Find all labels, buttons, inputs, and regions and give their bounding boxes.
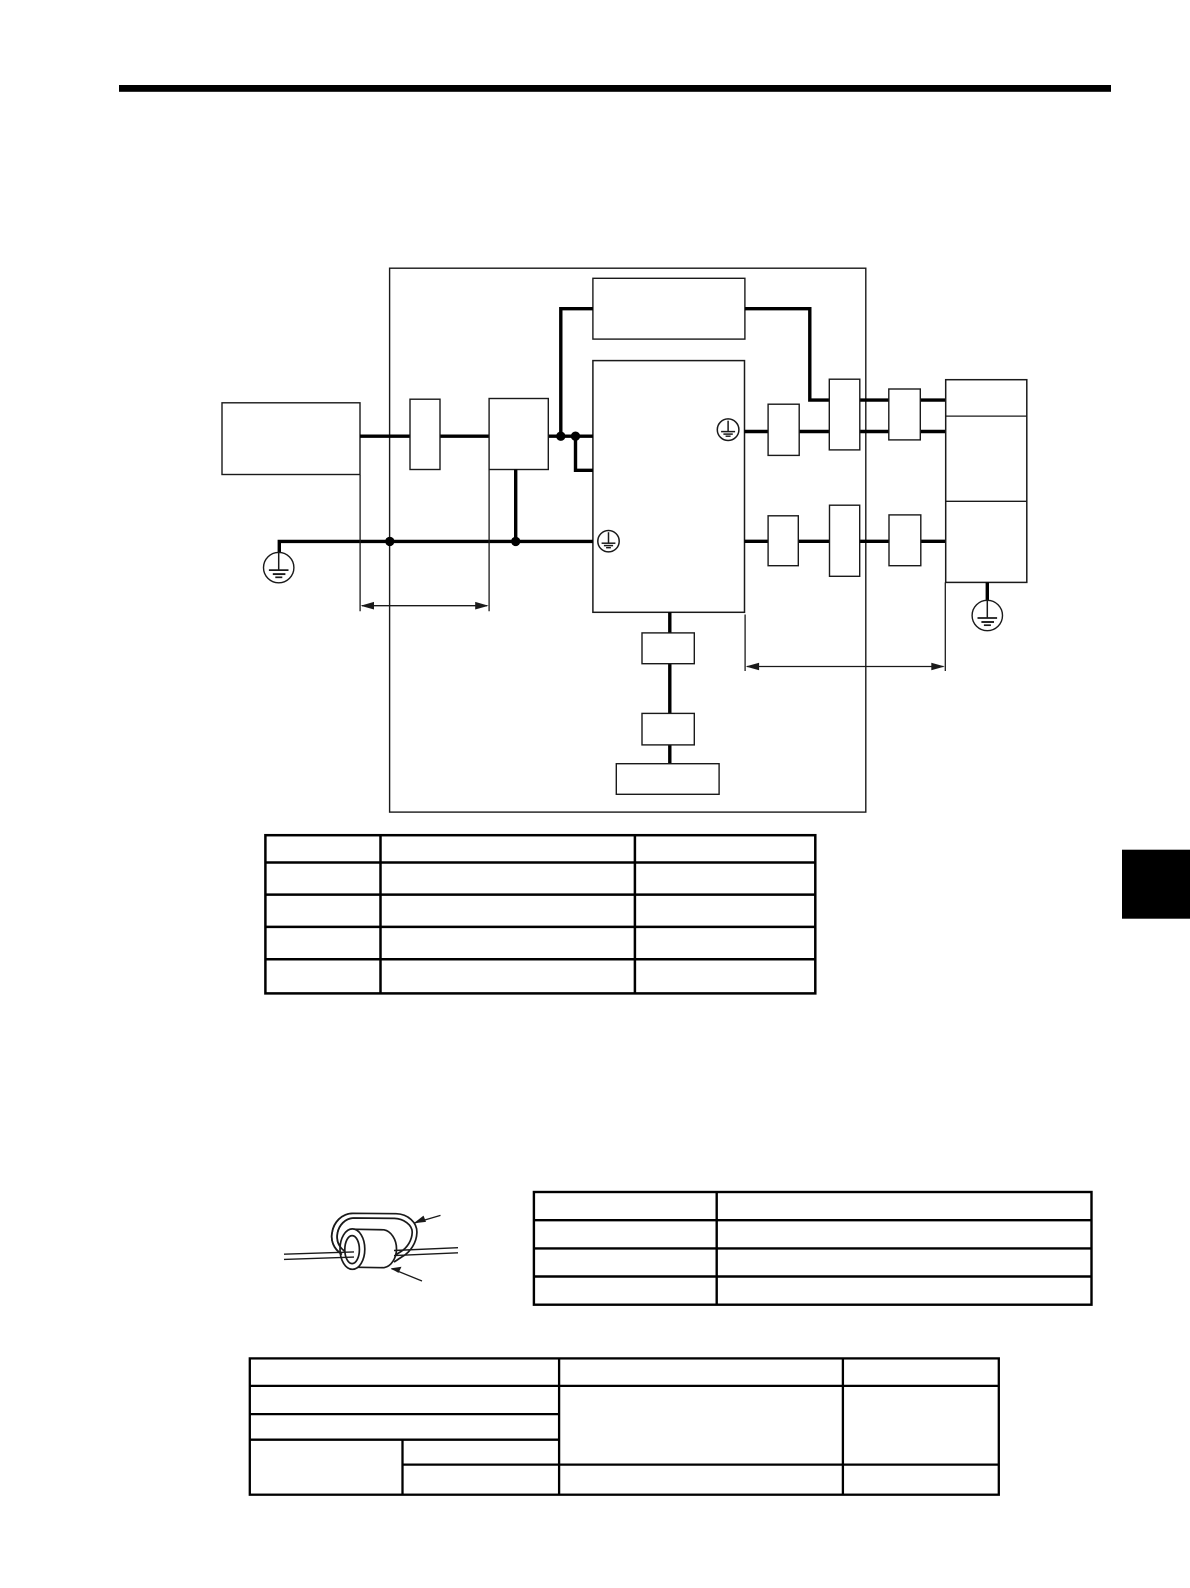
junction dot J4	[511, 537, 520, 546]
noise filter box	[489, 399, 548, 470]
dimension D2 arrow	[746, 663, 945, 671]
wire: brake supply left drop	[561, 309, 593, 437]
brake power supply box	[593, 278, 745, 339]
lead wire right	[394, 1248, 458, 1251]
ferrite clamp box F6	[889, 515, 921, 566]
dimension D2 extension line right	[944, 582, 946, 671]
ferrite core hole	[345, 1236, 360, 1264]
wire: motor ground	[986, 582, 989, 600]
motor box divider upper	[946, 415, 1027, 417]
page side tab	[1122, 850, 1190, 919]
lead wire left	[284, 1252, 354, 1254]
ferrite clamp box F4	[768, 516, 798, 566]
circuit breaker box	[410, 399, 440, 469]
dimension D1 extension line left	[359, 475, 361, 611]
wire: branch into servo amplifier	[576, 436, 594, 470]
wire: motor power upper	[745, 430, 946, 433]
ground symbol PE1 (left earth)	[264, 552, 294, 582]
wire: motor power lower	[745, 540, 946, 543]
connector box E	[642, 713, 694, 745]
servo motor box	[946, 380, 1027, 583]
ferrite clamp box F3	[889, 389, 921, 440]
EMC installation boundary box	[390, 268, 866, 812]
junction dot J2	[571, 432, 580, 441]
table T3	[250, 1358, 999, 1494]
dimension D1 extension line right	[488, 470, 490, 611]
power supply box	[222, 403, 360, 475]
connector box D	[642, 633, 694, 664]
ferrite clamp box F5	[830, 505, 860, 576]
motor box divider lower	[946, 500, 1027, 502]
ferrite core end face	[340, 1229, 365, 1269]
callout arrow cable turn	[415, 1215, 441, 1223]
junction dot J1	[556, 432, 565, 441]
wire: signal chain	[668, 612, 671, 763]
wire: brake supply right run	[745, 309, 946, 400]
ferrite clamp box F1	[768, 404, 799, 455]
ferrite core body	[351, 1229, 397, 1268]
table T2	[534, 1192, 1092, 1305]
wire: noise filter ground drop	[514, 470, 517, 542]
servo amplifier U1 box	[593, 361, 745, 613]
operator box	[616, 764, 719, 795]
wire: main power line	[360, 435, 593, 438]
callout arrow ferrite core	[392, 1269, 423, 1281]
ground symbol PE4 (motor earth)	[972, 600, 1002, 630]
junction dot J3	[385, 537, 394, 546]
wire: ground bus	[279, 541, 593, 552]
ferrite clamp box F2	[829, 379, 860, 450]
header rule	[119, 85, 1111, 92]
ferrite core winding figure	[284, 1213, 458, 1281]
cable loop turn	[332, 1213, 417, 1262]
table T1	[265, 835, 815, 993]
cable loop over core face	[332, 1213, 354, 1254]
dimension D2 extension line left	[744, 615, 746, 672]
ground symbol PE2 (servo amp left)	[598, 531, 619, 552]
ground symbol PE3 (servo amp right)	[717, 419, 739, 441]
dimension D1 arrow	[361, 602, 489, 610]
